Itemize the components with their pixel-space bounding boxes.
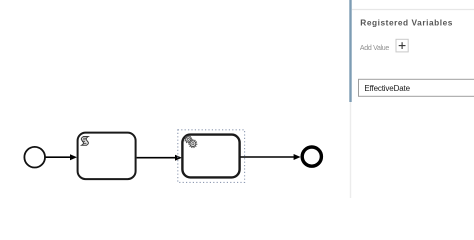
selection box xyxy=(178,130,245,183)
wire start->task1 xyxy=(46,154,78,160)
task T2 (selected) xyxy=(182,135,239,178)
script icon xyxy=(81,137,88,146)
start event xyxy=(24,147,45,168)
wire task2->end xyxy=(241,154,301,160)
input EffectiveDate xyxy=(359,79,474,96)
wire task1->task2 xyxy=(137,155,182,161)
svg-text:Registered Variables: Registered Variables xyxy=(360,18,453,28)
svg-text:Add Value: Add Value xyxy=(360,45,389,52)
scrollbar track xyxy=(350,0,352,198)
end event xyxy=(302,147,321,166)
task T1 xyxy=(78,133,136,180)
gear icon xyxy=(185,136,197,147)
add button xyxy=(396,39,408,52)
svg-text:EffectiveDate: EffectiveDate xyxy=(364,84,410,93)
panel header divider xyxy=(352,9,474,11)
scrollbar thumb xyxy=(349,0,351,102)
